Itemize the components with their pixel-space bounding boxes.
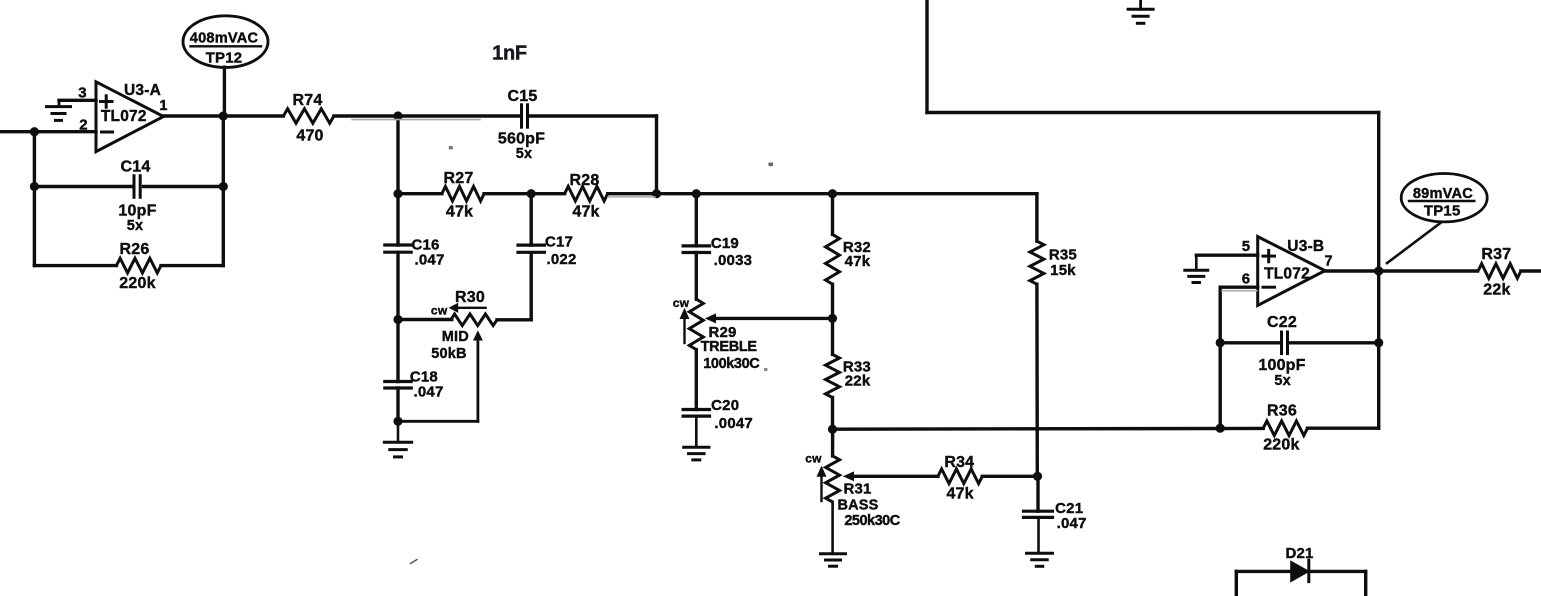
svg-text:C22: C22 [1267,314,1297,331]
test point TP15 (89mVAC) [1387,174,1487,264]
wire R35 corner down [1035,194,1038,242]
wire left feedback vertical [33,132,36,266]
wire R74 to node [334,114,398,117]
wire C15 to corner [528,116,657,194]
node C14 right [219,182,228,191]
ground (top) [1128,0,1153,23]
node treble wiper [828,314,837,323]
svg-text:R31: R31 [843,481,871,498]
wire C14 row [34,185,223,188]
potentiometer R31 (BASS 250k30C) [805,429,938,554]
test point TP12 (408mVAC) [183,16,268,68]
node input junction [30,127,39,136]
svg-text:47k: 47k [572,204,599,221]
svg-text:5x: 5x [1274,373,1291,389]
ground (U3-B pin 5) [1185,255,1208,282]
svg-text:R30: R30 [455,289,485,306]
node C14 left [30,182,39,191]
svg-text:1: 1 [159,98,167,114]
capacitor C18 [385,368,444,400]
svg-text:5x: 5x [516,146,533,162]
svg-text:TL072: TL072 [101,108,147,125]
wire top-left vertical [925,0,928,113]
capacitor C21 [1024,500,1087,532]
svg-text:R27: R27 [444,170,474,187]
speckle [449,146,453,149]
svg-text:R74: R74 [293,92,323,109]
wire node down to C16 [396,116,399,245]
scan artifact [608,196,655,198]
resistor R35 [1030,241,1077,284]
wire output feedback vertical [222,116,225,266]
svg-text:.047: .047 [1057,515,1087,532]
svg-text:MID: MID [442,329,469,345]
svg-text:BASS: BASS [837,498,878,514]
node R30 left [393,315,402,324]
node C19 top [692,189,701,198]
svg-text:50kB: 50kB [431,346,466,362]
wire C19 column top [695,194,698,246]
node tone row left [393,189,402,198]
svg-text:5x: 5x [127,218,144,234]
wire R35 down [1035,284,1039,476]
svg-text:TREBLE: TREBLE [701,339,758,355]
wire R28 to C19 node [608,192,697,195]
svg-text:TL072: TL072 [1264,265,1310,282]
svg-text:C14: C14 [121,159,151,176]
scan artifact [1222,290,1257,292]
svg-text:.022: .022 [547,251,577,268]
svg-text:10pF: 10pF [118,203,156,220]
wire D21 left leg [1235,571,1238,596]
potentiometer R30 (MID 50kB) [398,289,531,421]
svg-text:89mVAC: 89mVAC [1413,186,1473,202]
svg-text:6: 6 [1242,270,1251,287]
svg-text:7: 7 [1324,254,1332,270]
ground (C20) [684,416,709,460]
resistor R32 [826,234,871,284]
svg-text:TP15: TP15 [1424,203,1461,220]
svg-text:47k: 47k [946,486,973,503]
node bass top [828,425,837,434]
wire C16 to R30 node [396,252,399,319]
wire C21 top [1036,476,1039,511]
resistor R26 [116,241,161,292]
capacitor C17 [518,234,577,269]
wire C22 row [1220,341,1379,344]
wire C19 to R29 [695,253,698,300]
speckle [769,163,774,167]
wire input (pin 2) [0,130,96,133]
svg-text:408mVAC: 408mVAC [190,31,259,47]
svg-text:R26: R26 [120,241,150,258]
svg-text:22k: 22k [1483,282,1510,299]
ground (C18) [384,421,411,457]
svg-text:C15: C15 [508,88,538,105]
svg-text:100pF: 100pF [1258,357,1305,374]
svg-text:C17: C17 [545,234,573,251]
scan artifact [352,119,480,121]
node C18 bottom [393,417,402,426]
svg-text:.0033: .0033 [714,252,753,269]
wire output to R74 [164,114,284,117]
node C22 left [1216,338,1225,347]
node R74 right [393,111,402,120]
wire pin 3 [59,99,96,102]
svg-text:1nF: 1nF [492,43,527,65]
wire pin6 vertical [1218,287,1221,428]
svg-text:TP12: TP12 [206,50,243,67]
wire TP12 stub [223,67,226,116]
svg-text:220k: 220k [119,275,155,292]
node output U3-B [1374,266,1383,275]
wire R37 right [1521,269,1541,272]
svg-text:cw: cw [673,296,690,310]
svg-text:47k: 47k [845,253,871,270]
ground (C21) [1027,517,1053,566]
wire node to C15 [398,114,521,117]
wire top horizontal [927,111,1379,114]
svg-text:22k: 22k [845,373,871,390]
wire R32 to wiper node [831,284,834,354]
ground (U3-A pin 3) [47,100,71,120]
diode D21 [1236,545,1365,582]
resistor R74 [283,92,333,145]
op-amp U3-B [1242,237,1333,306]
resistor R28 [565,172,608,221]
speckle [411,560,418,564]
wire output U3-B [1324,269,1477,272]
svg-text:100k30C: 100k30C [703,356,760,372]
node C22 right [1374,338,1383,347]
wire R33 to bottom node [831,398,834,430]
svg-text:R28: R28 [570,172,600,189]
svg-text:250k30C: 250k30C [844,513,900,529]
resistor R34 [938,454,982,503]
wire C17 column [530,194,533,320]
resistor R37 [1478,246,1521,299]
wire R34 right [982,475,1037,478]
resistor R36 [1263,403,1307,454]
svg-text:cw: cw [805,452,822,466]
capacitor C19 [683,235,752,269]
node R32 top [828,189,837,198]
svg-text:.047: .047 [414,383,444,400]
svg-text:R34: R34 [944,454,974,471]
ground (R31) [821,554,846,566]
capacitor C22 [1258,314,1305,389]
capacitor C15 [498,88,545,162]
svg-text:47k: 47k [446,204,473,221]
svg-text:.0047: .0047 [714,415,753,432]
wire C18 to ground node [396,388,399,421]
svg-text:cw: cw [431,304,448,318]
capacitor C16 [385,237,445,269]
wire pin 5 [1196,253,1257,256]
wire R36 right [1308,343,1379,428]
svg-text:R36: R36 [1267,403,1297,420]
wire top-right vertical [1377,113,1380,343]
svg-text:5: 5 [1242,238,1251,255]
wire D21 right leg [1364,571,1367,596]
node output U3-A [219,111,228,120]
svg-text:.047: .047 [415,251,445,268]
svg-text:15k: 15k [1050,262,1076,279]
node C17 top [527,189,536,198]
wire R32 top stub [831,194,834,235]
svg-text:R37: R37 [1481,246,1511,263]
annotation 1nF [492,43,527,65]
capacitor C14 [118,159,156,235]
wire R27 to C17 node [484,192,564,195]
wire pin 6 [1220,286,1258,289]
svg-text:3: 3 [78,85,87,102]
svg-text:220k: 220k [1263,437,1299,454]
wire tone row right [696,192,1037,195]
node R36 left [1216,424,1225,433]
capacitor C20 [683,397,753,432]
svg-text:C19: C19 [711,235,739,252]
svg-text:U3-A: U3-A [124,82,161,99]
op-amp U3-A [78,82,167,152]
wire bass row to R36 [833,427,1264,431]
resistor R33 [826,354,871,397]
speckle [764,368,767,371]
potentiometer R29 (TREBLE 100k30C) [673,296,833,372]
wire R30 node to C18 [396,320,399,382]
node C15 return [652,189,661,198]
svg-text:C20: C20 [711,397,739,414]
svg-text:470: 470 [296,128,323,145]
wire R26 row [34,264,223,267]
wire tone row left [398,192,442,195]
wire R29 to C20 [695,350,698,410]
node R34 right [1033,472,1042,481]
svg-text:R35: R35 [1049,247,1077,264]
svg-text:U3-B: U3-B [1287,238,1324,255]
resistor R27 [442,170,484,220]
svg-text:560pF: 560pF [498,131,545,148]
